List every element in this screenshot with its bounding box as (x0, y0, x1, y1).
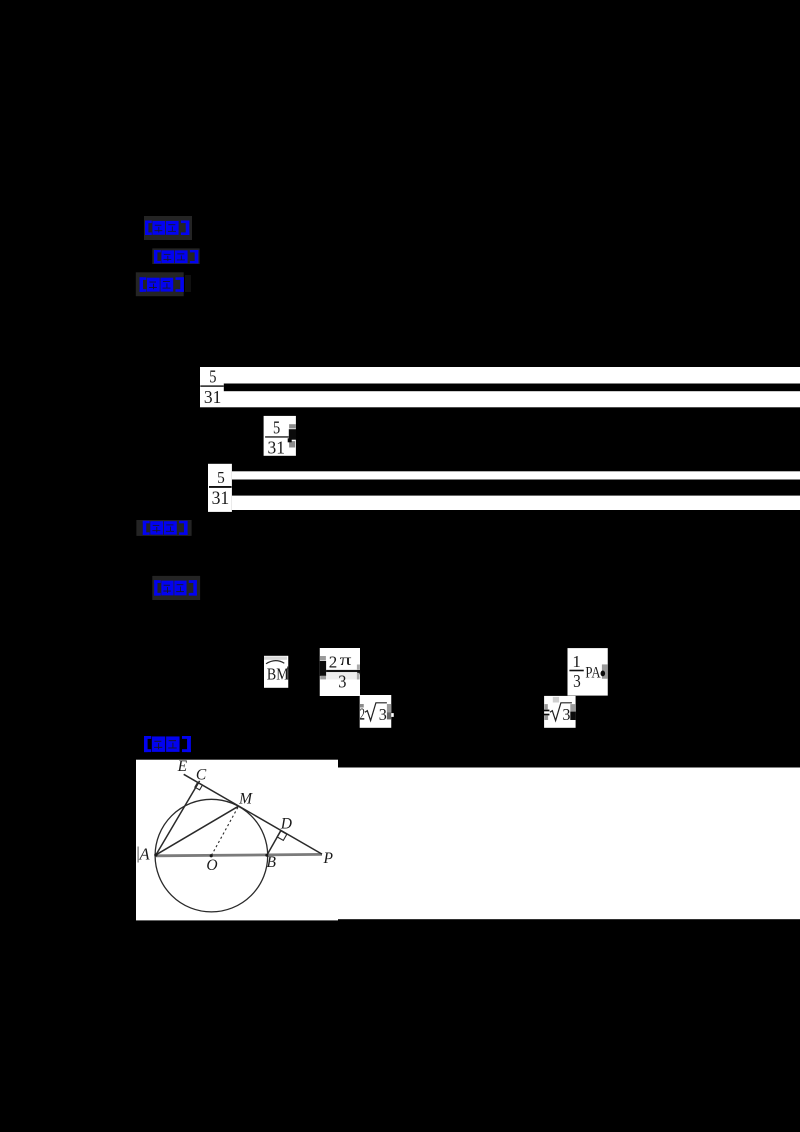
label 【分析】 L3 (136, 272, 191, 296)
svg-text:3: 3 (573, 671, 581, 691)
svg-text:B: B (266, 854, 276, 871)
svg-text:A: A (139, 845, 151, 864)
dashed line O M (211, 806, 238, 855)
equation image: =2pi/3 (E5) (320, 648, 361, 696)
svg-text:C: C (196, 766, 207, 783)
right angle mark at D (277, 831, 287, 841)
svg-text:31: 31 (204, 387, 221, 407)
svg-text:3: 3 (338, 672, 346, 692)
equation image: 2 sqrt3 (E7) (360, 695, 394, 728)
equation image: = sqrt3 (E8) (544, 696, 576, 728)
equation image: fraction 5/31 with glyph (E2) (264, 416, 296, 458)
tangent line E P (184, 774, 322, 854)
line A P (155, 854, 322, 855)
svg-text:O: O (206, 857, 217, 874)
equation image: arc BM (E4) (264, 656, 289, 688)
equation image: wide strip with fraction 5/31 (E1) (200, 367, 800, 407)
label 【解答】 L4 (136, 520, 191, 536)
dot at A (154, 853, 157, 856)
svg-text:M: M (238, 790, 253, 807)
svg-text:BM: BM (267, 665, 289, 684)
right angle mark at C (195, 782, 203, 790)
faint glyph after L3 (185, 275, 191, 292)
svg-text:E: E (177, 758, 188, 775)
svg-text:3: 3 (562, 705, 570, 724)
label 【点评】 L5 (152, 576, 200, 600)
svg-text:P: P (322, 850, 333, 867)
svg-text:31: 31 (267, 437, 284, 457)
label 【解答】 L6 (144, 736, 191, 752)
figure: white image box (136, 758, 800, 921)
svg-text:D: D (280, 816, 292, 833)
svg-text:2: 2 (360, 705, 365, 723)
line B D (267, 830, 281, 855)
line A C (156, 781, 200, 855)
svg-text:5: 5 (273, 419, 280, 438)
svg-text:π: π (340, 652, 352, 669)
label 【专题】 L2 (152, 248, 199, 264)
dot at O (210, 854, 213, 857)
svg-text:1: 1 (572, 652, 581, 671)
svg-text:2: 2 (329, 653, 338, 672)
equation image: wide double strip with fraction 5/31 (E3) (208, 464, 800, 512)
white band right of figure (336, 768, 800, 920)
svg-text:PA: PA (585, 664, 601, 682)
svg-text:3: 3 (379, 705, 387, 724)
svg-text:31: 31 (212, 488, 230, 509)
svg-text:5: 5 (217, 470, 225, 488)
svg-text:5: 5 (209, 368, 216, 387)
tick left of A (138, 847, 139, 863)
label 【考点】 L1 (144, 216, 192, 240)
line A M (156, 806, 239, 855)
circle O (155, 799, 268, 912)
equation image: 1/3 PA dot (E6) (568, 648, 608, 696)
